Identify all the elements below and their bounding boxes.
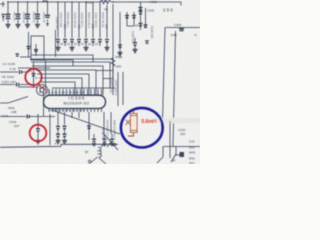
wire vertical rail x72 [71, 2, 73, 38]
pin marks inside red circle 1 [30, 71, 38, 78]
wire bottom right vertical x170 [169, 121, 171, 158]
ground for C302 [16, 25, 21, 28]
ground for C301 [6, 25, 11, 28]
svg-text:3.3k: 3.3k [10, 67, 17, 71]
capacitor C306 [45, 2, 50, 22]
wire rail x89 bottom [88, 112, 90, 140]
svg-text:6 7 8 9 0 1 2 3 4 5 6 7 8 9 0: 6 7 8 9 0 1 2 3 4 5 6 7 8 9 0 [50, 109, 85, 113]
svg-text:8.81: 8.81 [171, 33, 177, 37]
svg-text:R33: R33 [189, 146, 195, 150]
wire vertical rail x86 [85, 2, 87, 38]
svg-text:C303 14P: C303 14P [2, 80, 16, 84]
ground rail x107 [105, 48, 110, 51]
diagonal slash mark [171, 154, 176, 162]
capacitor chain x58 upper [56, 126, 60, 128]
svg-text:R316 4.7k 2: R316 4.7k 2 [87, 13, 91, 29]
resistor R311 zigzag [111, 58, 115, 66]
wire vertical rail x65 [64, 2, 66, 38]
bus fan wire E [39, 78, 82, 95]
capacitor series y72 [20, 70, 22, 74]
ground chain x64.5 [62, 141, 67, 144]
capacitor row y38 c6 [91, 40, 95, 47]
bus step [43, 1, 47, 2]
capacitor inside red circle 1 [32, 74, 36, 76]
ground below red circle 2 [36, 141, 41, 144]
wire vertical rail x93 [92, 2, 94, 38]
svg-text:150: 150 [180, 132, 185, 136]
wire bottom-left step [20, 56, 31, 58]
capacitor on x120 [118, 45, 122, 47]
svg-text:R321 C32: R321 C32 [109, 80, 113, 93]
svg-text:IC306: IC306 [69, 96, 86, 101]
relay box small [180, 152, 185, 157]
wire right rail x161 [163, 28, 166, 122]
svg-text:C316 222 1: C316 222 1 [80, 13, 84, 28]
wire right rail x174 [173, 31, 176, 147]
svg-text:C333: C333 [178, 128, 186, 132]
svg-text:C312 0.018: C312 0.018 [59, 13, 63, 28]
capacitor chain x58 lower [56, 129, 60, 140]
bus fan wire A [30, 59, 113, 88]
capacitor on U left [125, 16, 129, 18]
capacitor C304 [25, 2, 30, 24]
wire rail x79 bottom [78, 112, 80, 118]
ground for C304 [25, 25, 30, 28]
svg-text:W33: W33 [189, 151, 196, 155]
svg-text:C327 R33 4: C327 R33 4 [114, 80, 118, 96]
svg-text:R317 1k 33: R317 1k 33 [101, 13, 105, 28]
svg-text:C315: C315 [1, 114, 9, 118]
inductor L301 highlighted (red component) [128, 110, 137, 136]
annotation red circle 1 [25, 69, 41, 85]
resistor R318 zigzag in bus [100, 0, 111, 4]
capacitor series y84.5 [17, 83, 19, 87]
svg-text:C303: C303 [174, 23, 182, 27]
capacitor on rail x28.5 [27, 47, 31, 49]
capacitor row y38 c5 [84, 40, 88, 48]
capacitor C301 [6, 2, 11, 24]
ground x135 mid [133, 50, 138, 53]
svg-text:C308 1u: C308 1u [22, 12, 26, 23]
annotation red pointer line [37, 84, 46, 91]
annotation red circle 2 [30, 125, 47, 142]
svg-text:9F: 9F [85, 150, 89, 154]
svg-text:R319: R319 [101, 0, 109, 3]
svg-text:41C: 41C [189, 161, 195, 164]
wire coil lead diagonal left [88, 157, 97, 164]
ground row y48 g3 [84, 48, 89, 51]
wire rail x145.5 [145, 8, 147, 28]
svg-text:31P: 31P [14, 124, 19, 128]
svg-text:N: N [195, 33, 197, 37]
svg-text:24: 24 [135, 24, 139, 28]
scan gray band right [154, 118, 200, 123]
svg-text:0F: 0F [172, 159, 176, 163]
wire rail x118 short [117, 72, 119, 106]
ground chain x58 [56, 141, 61, 144]
wire U jog top middle [127, 12, 134, 26]
capacitor on x145.5 [144, 25, 148, 27]
capacitor C305 [35, 2, 40, 24]
svg-text:47u 16: 47u 16 [13, 12, 17, 21]
wire L-jog bus 2 [31, 60, 73, 66]
svg-text:R311: R311 [116, 55, 123, 59]
wire rail x120 [119, 12, 121, 58]
svg-text:L6 4148: L6 4148 [3, 62, 16, 66]
ground x120 [118, 53, 123, 56]
bus fan wire D [37, 74, 89, 95]
wire crossing y68 [18, 67, 50, 69]
capacitor bottom row x112 [110, 134, 114, 146]
capacitor rail x107 bottom [105, 40, 109, 48]
wire crossing y87 [18, 86, 38, 88]
wire vertical rail x58 [57, 2, 59, 38]
svg-text:R315 10k 1: R315 10k 1 [66, 13, 70, 28]
svg-text:R318: R318 [86, 0, 94, 4]
svg-text:R313 22: R313 22 [32, 12, 36, 23]
wire bottom right vertical x176 [176, 147, 180, 156]
wire diagonal bottom right [157, 157, 163, 163]
slash marks on bottom line [101, 143, 111, 148]
svg-text:1RK: 1RK [116, 65, 122, 69]
capacitor inside red circle 2 [36, 129, 40, 131]
wire rail x104 lower [103, 112, 105, 134]
capacitor on x89 [87, 126, 91, 128]
capacitor on x140.5 upper [139, 8, 143, 10]
paper background [0, 0, 200, 164]
wire rail x123 short [122, 72, 124, 105]
svg-text:5.6mH: 5.6mH [142, 119, 157, 125]
wire vertical x33.5 through circle [33, 62, 35, 88]
wire bottom right horizontal [163, 146, 200, 148]
wire stub y72 to rail [96, 71, 113, 79]
junction dots on bus [7, 1, 113, 2]
capacitor row y38 c3 [70, 40, 74, 48]
wire rail x64.5 bottom [64, 112, 66, 125]
capacitor series on y116.5 [27, 115, 29, 119]
wire L-jog bus 1 [31, 55, 93, 62]
capacitor on x140.5 lower [139, 24, 143, 26]
bus fan wire C [36, 70, 96, 95]
capacitor x147 small [145, 41, 149, 43]
capacitor row y38 c1 [56, 40, 60, 48]
wire vertical rail x107 [106, 5, 108, 38]
lead C300 [2, 17, 4, 21]
capacitor bottom row x104.5 [103, 134, 107, 146]
wire coil lead diagonal right [99, 158, 106, 164]
wire right box top edge [165, 27, 200, 29]
wire pin header y88 [52, 87, 115, 89]
wire rail x113 tall [112, 4, 114, 88]
wire top supply bus [7, 1, 141, 3]
wire rail x140.5 [140, 2, 142, 30]
svg-text:14B: 14B [11, 110, 16, 114]
scan speckle noise [0, 0, 200, 164]
capacitor bottom row x94 [92, 134, 96, 146]
wire rail x111 lower [110, 112, 112, 134]
wire rail x55.5 [55, 30, 57, 57]
wire long diagonal under IC [52, 110, 120, 134]
red speck on bottom line [55, 143, 57, 145]
pin stubs IC306 bottom [49, 109, 102, 113]
capacitor row y38 c7 [98, 40, 102, 47]
wire vertical x45.5 [44, 60, 46, 116]
capacitor right top [179, 29, 184, 31]
capacitor row y38 c4 [77, 40, 81, 47]
svg-text:C315 473 B: C315 473 B [73, 13, 77, 28]
pin stubs IC306 top [49, 89, 102, 95]
wire vertical rail x100 [99, 2, 101, 38]
wire vertical x38 bottom [37, 114, 39, 140]
wire rail x28.5 [28, 32, 30, 57]
wire left input y72 [0, 71, 29, 73]
capacitor chain x64.5 upper [63, 126, 67, 128]
capacitor chain x64.5 lower [63, 129, 67, 140]
node box left [31, 36, 44, 60]
op-amp IC306 body [44, 95, 106, 108]
capacitor on U right [132, 16, 136, 18]
ground for C305 [35, 25, 40, 28]
ground row y48 g1 [56, 48, 61, 51]
wire bottom long horizontal [0, 144, 118, 147]
wire bottom-left bus y116.5 [0, 116, 55, 118]
transistor Q301 internals [40, 87, 44, 94]
wire diagonal left under IC [0, 97, 28, 104]
capacitor x135 mid [133, 38, 137, 49]
capacitor C300 small [2, 15, 6, 17]
svg-text:BU2630F-E2: BU2630F-E2 [64, 102, 90, 106]
ground dot C306 [46, 24, 48, 26]
svg-text:250: 250 [163, 8, 174, 13]
wire vertical x50 bottom [49, 114, 51, 145]
inductor coil bottom vertical [98, 147, 101, 157]
svg-text:C15: C15 [189, 140, 195, 144]
wire stub top-left corner [0, 2, 5, 8]
wire rail x72 bottom [71, 112, 73, 118]
svg-text:C328 150: C328 150 [150, 26, 154, 39]
wire left input y84.5 [0, 84, 36, 86]
capacitor on x140.5 mid [139, 11, 143, 13]
capacitor small above labels [16, 54, 20, 56]
wire stub left x163 [162, 147, 164, 158]
annotation X mark [126, 120, 131, 126]
wire top bus right extension [141, 2, 181, 6]
capacitor row y38 c2 [63, 40, 67, 47]
junction circle on bottom line [113, 143, 115, 145]
wire vertical rail x79 [78, 2, 80, 38]
bus fan wire B [32, 66, 103, 95]
wire rail x113 lower part [112, 66, 114, 95]
wire rail x58 bottom [57, 112, 59, 125]
svg-text:C317 103 5: C317 103 5 [94, 13, 98, 28]
wire diagonal lower middle [103, 133, 118, 150]
transistor Q301 [37, 85, 48, 96]
capacitor inside node box [34, 44, 38, 56]
capacitor C302 [16, 2, 21, 24]
svg-text:C320: C320 [147, 9, 155, 13]
svg-text:5 4 3 2 1 0 9 8 7 6 5 4 3 2 1: 5 4 3 2 1 0 9 8 7 6 5 4 3 2 1 [49, 91, 84, 95]
svg-text:C325 104: C325 104 [131, 31, 135, 44]
annotation blue ellipse [121, 108, 163, 148]
ground row y48 g2 [70, 48, 75, 51]
bus fan wire F [41, 82, 75, 95]
svg-text:TB 3300: TB 3300 [2, 75, 15, 79]
svg-text:C309 470: C309 470 [55, 17, 59, 30]
tiny value texts mid row [60, 44, 100, 46]
svg-text:R1B C24 103 4: R1B C24 103 4 [113, 120, 117, 140]
svg-text:C310 47: C310 47 [42, 12, 46, 23]
